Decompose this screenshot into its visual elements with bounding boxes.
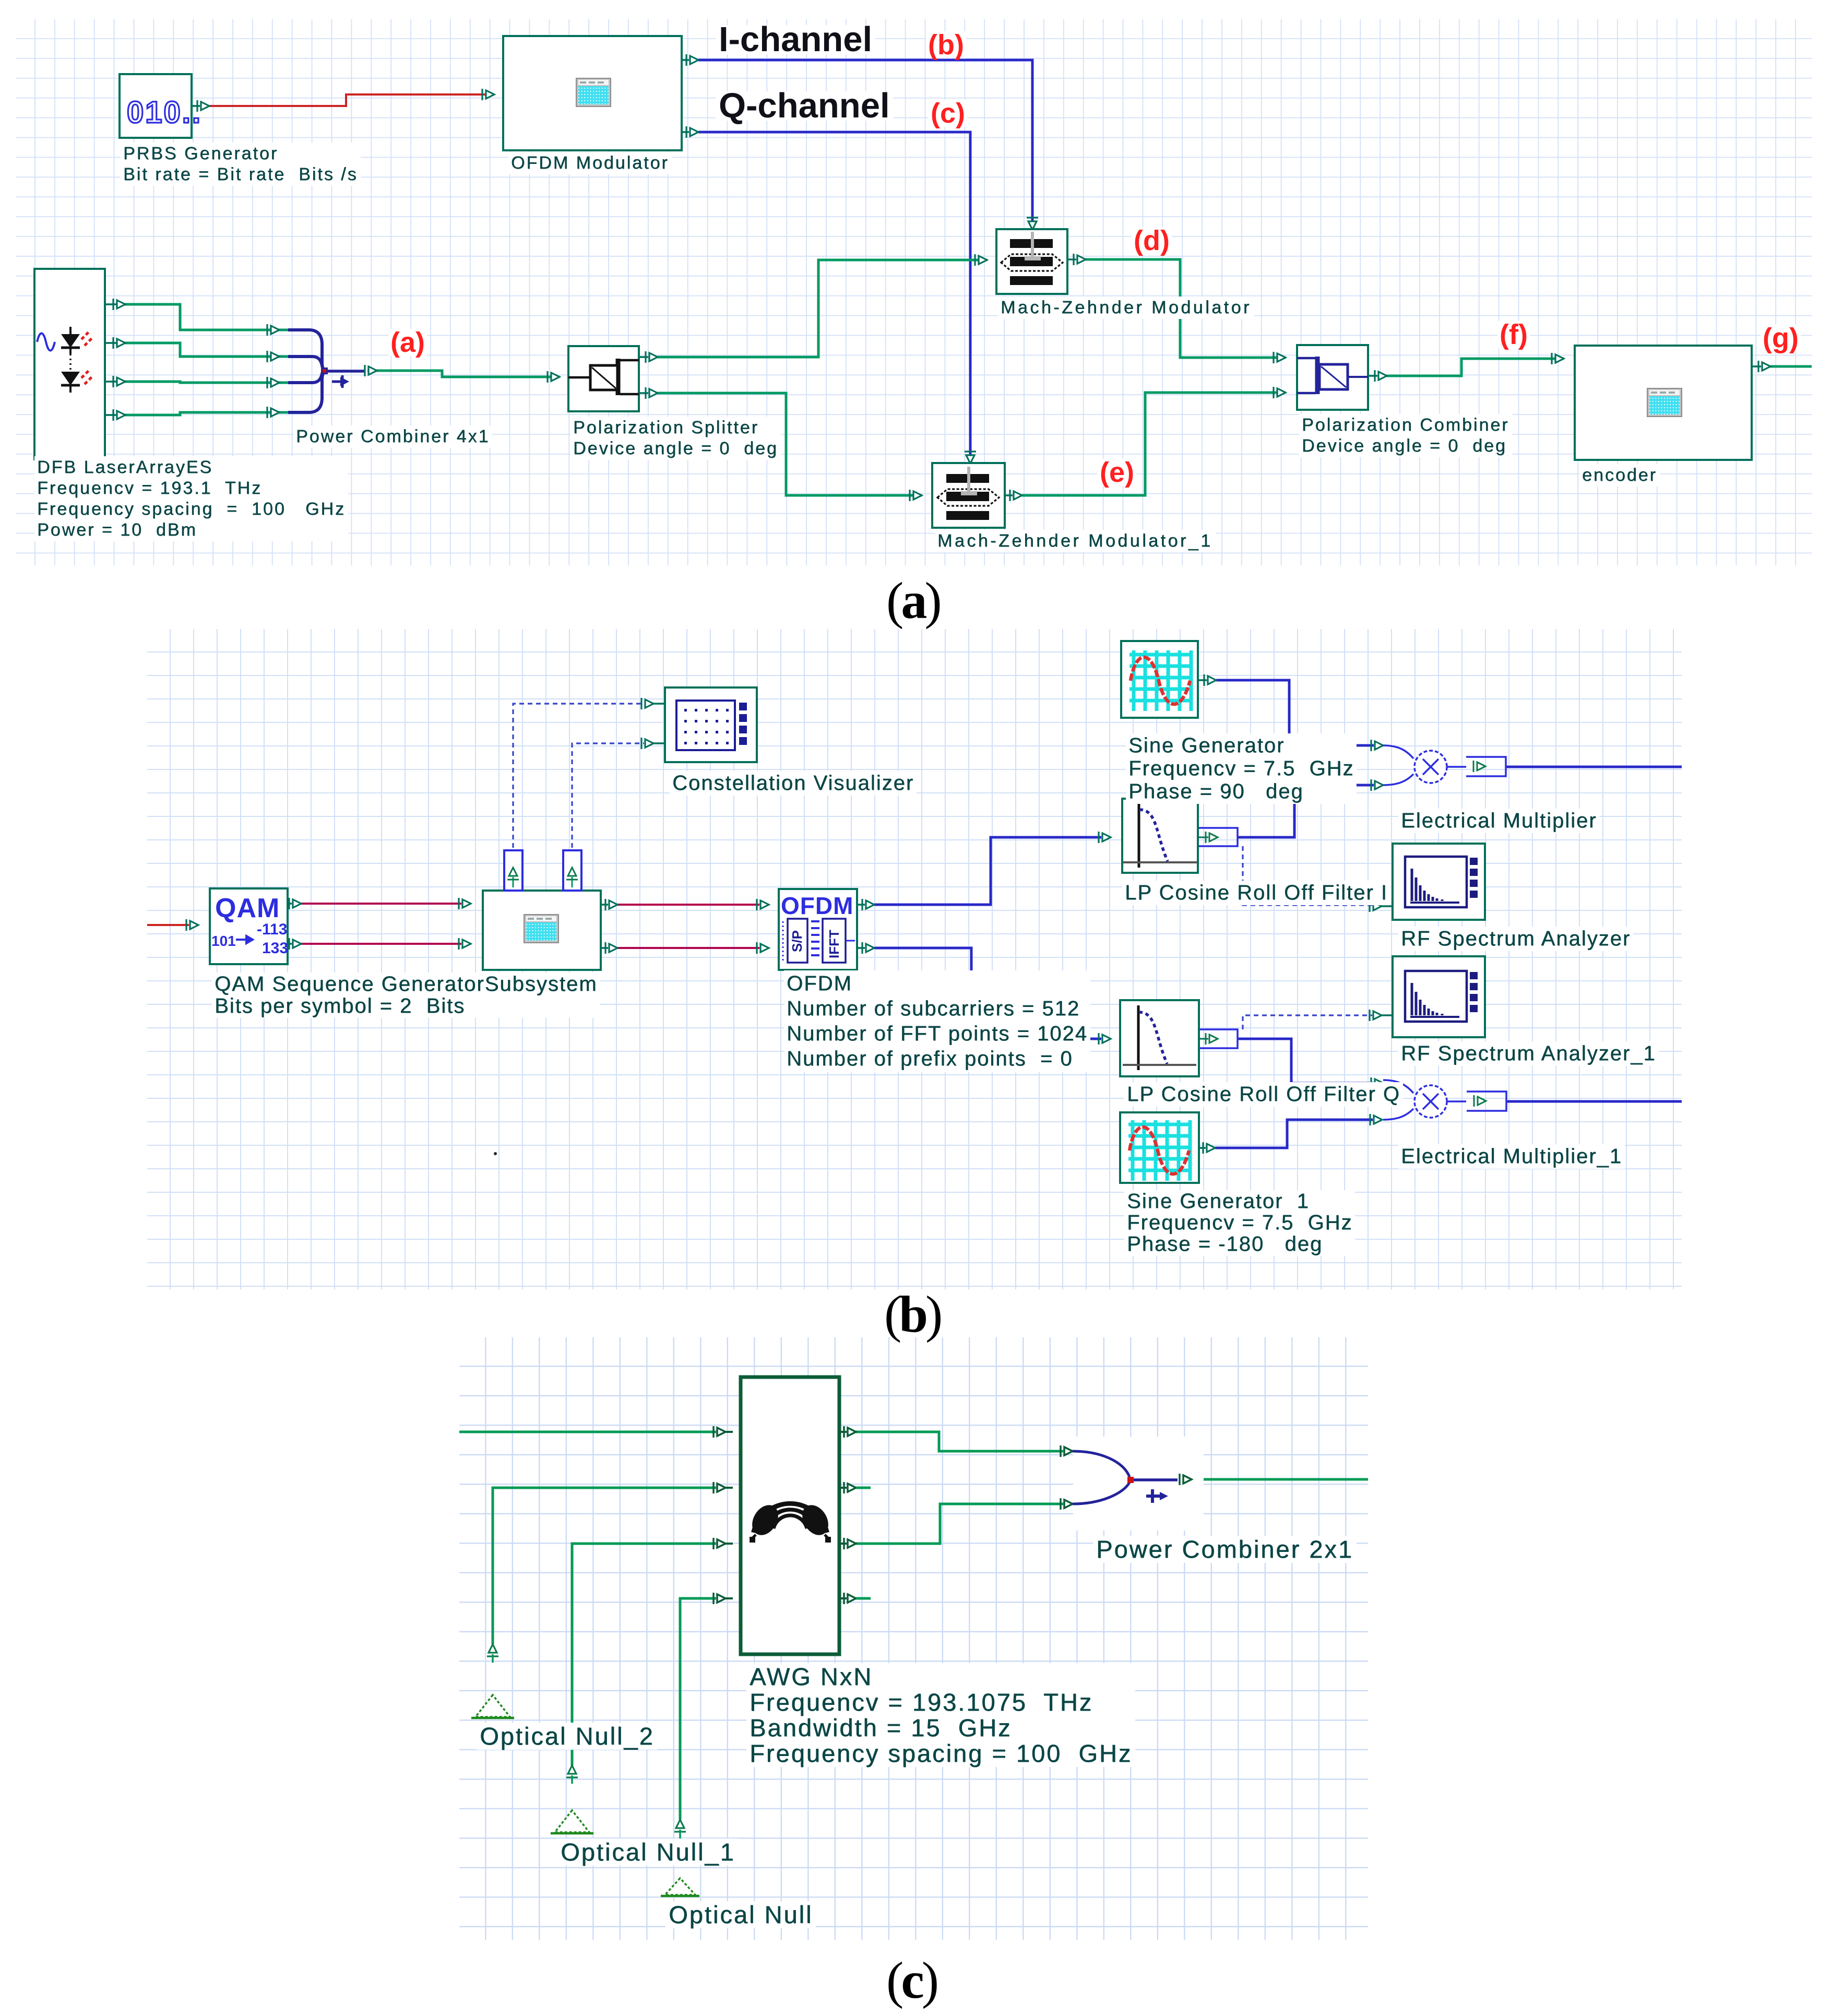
wire OFDM to LP Cosine Roll Off Filter Q (blue) [874,948,1101,1039]
wire filter Q to Electrical Multiplier_1 [1238,1039,1374,1083]
OFDM Modulator [503,36,682,150]
Power Combiner 2x1 [1073,1437,1204,1531]
PRBS Generator [120,74,192,138]
svg-text:133: 133 [262,940,288,957]
dashed monitor wire to Constellation Visualizer in2 [572,743,644,856]
label PRBS Generator [121,143,361,186]
label (a) [886,571,940,631]
Mach-Zehnder Modulator_1 [932,463,1005,528]
multiplier_1 output port [1467,1092,1506,1111]
grid panel (b) [147,629,1682,1289]
AWG out2 stub [856,1487,871,1489]
label Power Combiner 4x1 [293,425,492,448]
wire I-channel (b) [698,60,1032,229]
LP Cosine Roll Off Filter I [1122,799,1198,873]
wire Q-channel (c) [698,132,970,463]
wire filter I to Electrical Multiplier [1238,785,1374,837]
wire OFDM to LP Cosine Roll Off Filter I (blue) [874,837,1101,905]
label RF Spectrum Analyzer [1398,927,1633,951]
label (e) [1098,459,1136,486]
label RF Spectrum Analyzer_1 [1398,1041,1659,1066]
power combiner 2x1 plus-arrow mark [1146,1495,1160,1498]
Mach-Zehnder Modulator [996,229,1067,294]
Subsystem [483,891,601,970]
label Mach-Zehnder Modulator [998,297,1254,319]
svg-text:QAM: QAM [215,893,280,923]
stray dot [494,1152,497,1155]
wire AWG out3 to Power Combiner 2x1 [856,1504,1063,1544]
multiplier output port [1466,757,1506,776]
label LP Cosine Roll Off Filter Q [1124,1082,1403,1107]
label Polarization Combiner [1299,414,1512,457]
RF Spectrum Analyzer [1393,844,1485,920]
wire into QAM (red binary) [147,924,189,926]
grid panel (a) [16,19,1812,565]
wire DFB out3 to combiner fan [116,382,288,383]
monitor port 1 [504,850,522,891]
label (a) [388,329,427,356]
svg-text:101: 101 [211,933,236,949]
QAM Sequence Generator [210,888,288,964]
AWG NxN [741,1377,839,1654]
wire DFB out4 to combiner fan [116,412,288,415]
wire Optical Null to AWG in4 [680,1598,716,1820]
filter I output port [1199,828,1238,846]
label (d) [1132,227,1172,254]
label encoder [1579,464,1660,487]
label (c) [886,1950,936,2010]
label I-channel [716,25,875,54]
filter Q output port [1200,1029,1238,1048]
wire QAM to Subsystem ch1 (crimson) [301,903,461,905]
label (f) [1497,321,1530,348]
label Polarization Splitter [570,417,781,460]
label (c) [929,100,967,127]
label (g) [1761,325,1801,352]
svg-text:-113: -113 [257,921,287,938]
power combiner plus-arrow mark [332,381,341,383]
svg-text:S/P: S/P [789,930,805,952]
wire Electrical Multiplier output [1506,766,1682,768]
label DFB LaserArrayES [34,456,348,541]
Optical Null [674,1831,686,1832]
wire MZM to polarization combiner (d) [1086,259,1286,358]
wire AWG out1 to Power Combiner 2x1 [856,1432,1063,1451]
wire QAM to Subsystem ch2 (crimson) [301,943,461,945]
grid panel (c) [459,1337,1368,1940]
Polarization Combiner [1297,345,1368,410]
dashed wire filter Q to RF Spectrum Analyzer_1 [1243,1015,1372,1029]
DFB LaserArray ES [34,269,105,459]
label Q-channel [716,91,893,121]
wire power combiner to polarization splitter (a) [367,371,560,377]
Electrical Multiplier_1 [1383,1080,1466,1120]
label Electrical Multiplier [1398,809,1599,833]
wire encoder output (g) [1770,365,1812,368]
Optical Null_2 [487,1655,498,1657]
wire AWG in1 [459,1431,716,1433]
wire Subsystem to OFDM ch1 (crimson) [617,904,759,906]
svg-text:OFDM: OFDM [781,892,853,919]
label (b) [926,31,966,58]
monitor port 2 [563,850,581,891]
svg-text:IFFT: IFFT [826,930,842,958]
label Mach-Zehnder Modulator_1 [935,530,1216,552]
wire Optical Null_2 to AWG in2 [493,1488,716,1644]
RF Spectrum Analyzer_1 [1393,956,1485,1037]
LP Cosine Roll Off Filter Q [1120,1000,1199,1076]
wire DFB out2 to combiner fan [116,343,288,357]
wire Subsystem to OFDM ch2 (crimson) [617,947,759,949]
label OFDM Modulator [508,152,672,174]
label Sine Generator 1 [1124,1190,1355,1256]
Optical Null_1 [566,1776,578,1778]
label Optical Null [665,1901,816,1928]
wire Sine Generator to Electrical Multiplier [1216,680,1374,745]
label QAM Sequence GeneratorSubsystem [212,973,600,1018]
encoder [1575,346,1752,460]
label Electrical Multiplier_1 [1398,1144,1625,1169]
svg-text:010..: 010.. [127,96,202,129]
Power Combiner 4x1 fan [266,324,268,336]
wire splitter to Mach-Zehnder Modulator [658,260,987,357]
label Optical Null_2 [477,1723,658,1750]
label Constellation Visualizer [670,771,917,796]
AWG icon [754,1504,827,1533]
Electrical Multiplier [1383,745,1466,785]
wire Optical Null_1 to AWG in3 [572,1544,716,1765]
wire DFB out1 to combiner fan [116,304,288,330]
dashed wire filter I to RF Spectrum Analyzer [1243,846,1372,905]
wire PRBS to OFDM Modulator (red binary) [209,94,494,106]
AWG out4 stub [856,1597,871,1600]
label Power Combiner 2x1 [1093,1536,1357,1563]
OFDM (b) [779,889,857,970]
label LP Cosine Roll Off Filter I [1122,881,1390,905]
Sine Generator 1 [1120,1112,1199,1183]
wire polarization combiner to encoder (f) [1387,359,1564,376]
wire Sine Generator 1 to Electrical Multiplier_1 [1215,1120,1373,1148]
wire splitter to Mach-Zehnder Modulator_1 [658,393,922,495]
label Optical Null_1 [557,1839,739,1866]
label Sine Generator [1126,733,1357,804]
Sine Generator [1121,641,1198,718]
label (b) [884,1284,940,1344]
wire MZM_1 to polarization combiner (e) [1022,393,1286,495]
Constellation Visualizer [665,687,757,762]
wire Power Combiner 2x1 output [1192,1478,1368,1481]
Polarization Splitter [568,346,639,411]
label AWG NxN [746,1663,1135,1767]
label OFDM [784,970,1090,1072]
dashed monitor wire to Constellation Visualizer in1 [513,704,644,856]
wire Electrical Multiplier_1 output [1506,1100,1682,1103]
